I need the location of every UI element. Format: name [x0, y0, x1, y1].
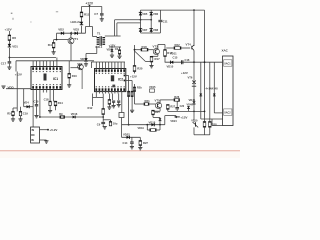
- svg-text:VD5: VD5: [142, 12, 148, 16]
- svg-text:R10: R10: [72, 74, 77, 78]
- svg-text:R2b: R2b: [137, 85, 142, 89]
- svg-text:C11: C11: [163, 20, 168, 24]
- svg-text:VD4: VD4: [24, 100, 30, 104]
- svg-text:10u: 10u: [113, 122, 118, 126]
- svg-text:R5: R5: [7, 112, 11, 116]
- svg-text:IN: IN: [32, 129, 35, 132]
- svg-text:R11: R11: [84, 13, 90, 17]
- svg-text:C7: C7: [94, 12, 98, 16]
- svg-text:IN: IN: [31, 139, 34, 142]
- svg-text:VD41: VD41: [189, 98, 196, 102]
- svg-text:VT6: VT6: [188, 76, 193, 80]
- svg-text:R12: R12: [88, 106, 93, 110]
- svg-text:+5.2V: +5.2V: [50, 128, 58, 132]
- svg-text:C15: C15: [173, 56, 178, 60]
- svg-text:VD1: VD1: [12, 45, 18, 49]
- svg-text:IC2: IC2: [118, 77, 123, 81]
- svg-text:C17: C17: [1, 62, 7, 66]
- svg-text:R26: R26: [174, 95, 179, 99]
- svg-text:C19: C19: [23, 111, 28, 115]
- svg-text:XAC1: XAC1: [224, 63, 231, 66]
- svg-text:+12V: +12V: [5, 28, 12, 32]
- svg-text:XAC: XAC: [222, 48, 229, 52]
- svg-text:VD16: VD16: [71, 112, 78, 116]
- svg-text:VD15: VD15: [149, 85, 156, 89]
- svg-text:VD18: VD18: [149, 120, 156, 124]
- svg-text:R18: R18: [142, 45, 148, 49]
- svg-text:R20: R20: [137, 67, 143, 71]
- svg-text:IC1: IC1: [53, 77, 58, 81]
- svg-text:VT4: VT4: [186, 42, 192, 46]
- svg-text:R6: R6: [12, 36, 16, 40]
- svg-text:R4: R4: [48, 43, 52, 47]
- svg-text:R14: R14: [58, 101, 63, 105]
- svg-text:VT10: VT10: [191, 118, 198, 122]
- svg-text:R27: R27: [170, 105, 175, 109]
- svg-text:VT2: VT2: [77, 62, 83, 66]
- svg-text:VD10: VD10: [167, 64, 174, 68]
- svg-text:C6: C6: [115, 47, 119, 51]
- svg-text:VD8: VD8: [153, 28, 159, 32]
- svg-text:VD4: VD4: [80, 57, 86, 61]
- svg-text:C18: C18: [44, 97, 49, 101]
- svg-text:VD40: VD40: [187, 103, 194, 106]
- svg-text:VT3: VT3: [153, 44, 159, 48]
- svg-text:C10: C10: [34, 100, 39, 104]
- svg-text:R27: R27: [143, 141, 148, 145]
- svg-text:C16: C16: [185, 58, 190, 62]
- svg-text:T1: T1: [97, 32, 101, 36]
- svg-text:VD9: VD9: [107, 48, 113, 52]
- svg-text:R21: R21: [145, 99, 151, 103]
- svg-text:R22: R22: [175, 43, 181, 47]
- svg-text:+12V: +12V: [181, 71, 188, 75]
- svg-text:VT1: VT1: [73, 37, 79, 41]
- svg-text:VD6: VD6: [153, 12, 159, 16]
- svg-text:VT5: VT5: [155, 99, 161, 103]
- svg-text:VD24: VD24: [170, 120, 177, 123]
- svg-text:R25: R25: [155, 111, 160, 114]
- svg-text:VD11: VD11: [170, 52, 177, 56]
- svg-text:+12V: +12V: [180, 115, 188, 119]
- svg-text:LED-2a: LED-2a: [71, 20, 81, 24]
- svg-text:XAC2: XAC2: [224, 112, 231, 115]
- svg-text:+12V: +12V: [130, 75, 137, 79]
- svg-text:VD2: VD2: [58, 27, 64, 31]
- svg-text:VD22: VD22: [123, 133, 130, 137]
- svg-text:+12V: +12V: [15, 73, 22, 77]
- svg-text:4×1N4148: 4×1N4148: [206, 86, 219, 90]
- svg-text:C9: C9: [97, 123, 101, 127]
- svg-text:C14: C14: [123, 141, 128, 145]
- svg-text:C20: C20: [180, 105, 185, 108]
- svg-text:VD3: VD3: [73, 27, 79, 31]
- svg-text:VD19: VD19: [138, 127, 145, 130]
- svg-text:VD7: VD7: [142, 28, 148, 32]
- svg-text:DC: DC: [31, 134, 35, 137]
- svg-text:R17: R17: [155, 57, 161, 61]
